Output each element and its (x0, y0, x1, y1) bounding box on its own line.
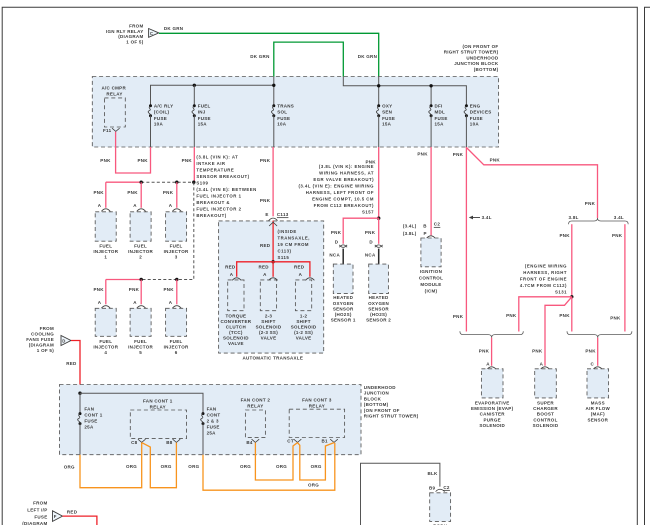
svg-text:RED: RED (294, 264, 305, 269)
svg-text:ORG: ORG (188, 464, 199, 469)
wire fuel inj fuse feed (193, 85, 195, 106)
svg-text:PNK: PNK (94, 190, 105, 195)
svg-text:CANISTER: CANISTER (480, 412, 506, 417)
heated oxygen sensor 1 (329, 240, 356, 323)
svg-text:CONTROL: CONTROL (533, 417, 557, 422)
svg-text:TORQUE: TORQUE (225, 314, 246, 319)
svg-text:ENG: ENG (470, 104, 481, 109)
wire pnk oxy sen fuse to S157 (378, 147, 380, 218)
svg-text:COOLING: COOLING (31, 331, 54, 336)
wire red S115 to 2-3 solenoid (272, 262, 274, 277)
wire pnk S157 to HO2S sensor 2 (378, 218, 380, 244)
svg-text:(BOTTOM): (BOTTOM) (474, 67, 499, 72)
fan cont 2 relay (241, 398, 271, 446)
wire pnk trans sol fuse to C113 (272, 147, 274, 216)
wire bus segment A inside junction block (151, 85, 274, 106)
mass air flow sensor (586, 362, 611, 423)
fuse TRANS SOL 10A (271, 104, 294, 148)
svg-text:(HO2S): (HO2S) (370, 312, 387, 317)
svg-text:2 & 3: 2 & 3 (207, 419, 219, 424)
svg-text:PNK: PNK (585, 201, 596, 206)
svg-text:A: A (98, 300, 102, 305)
svg-text:(MAF): (MAF) (591, 412, 605, 417)
svg-text:VALVE: VALVE (261, 336, 277, 341)
wire red cooling fans to fan box (71, 341, 80, 386)
svg-text:EMISSION (EVAP): EMISSION (EVAP) (471, 406, 514, 411)
svg-text:FUSE: FUSE (435, 116, 448, 121)
wire pnk eng devices down to brace (465, 147, 467, 332)
svg-text:PNK: PNK (479, 349, 490, 354)
svg-text:ORG: ORG (126, 464, 137, 469)
svg-text:FUSE: FUSE (198, 116, 211, 121)
svg-text:C113): C113) (278, 249, 292, 254)
svg-text:HEATED: HEATED (369, 295, 389, 300)
svg-text:SOLENOID: SOLENOID (223, 336, 249, 341)
svg-text:UNDERHOOD: UNDERHOOD (466, 55, 498, 60)
svg-text:INJECTOR: INJECTOR (128, 345, 153, 350)
svg-text:INJ: INJ (198, 110, 206, 115)
node S131 (570, 295, 573, 298)
svg-text:BREAKOUT): BREAKOUT) (196, 213, 226, 218)
splice S115 text (278, 229, 310, 260)
automatic transaxle box (219, 221, 324, 353)
svg-text:(COIL): (COIL) (154, 110, 170, 115)
svg-text:PNK: PNK (559, 313, 570, 318)
junction block location label (444, 44, 499, 72)
svg-text:4: 4 (104, 350, 107, 355)
svg-text:S115: S115 (278, 255, 290, 260)
svg-text:PNK: PNK (365, 230, 376, 235)
svg-text:B4: B4 (246, 440, 253, 445)
svg-text:3.8L: 3.8L (569, 215, 579, 220)
svg-text:S131: S131 (555, 289, 567, 294)
connector B9 C2 (429, 485, 450, 492)
svg-text:INJECTOR: INJECTOR (93, 345, 118, 350)
svg-text:A: A (133, 203, 137, 208)
svg-text:CONT 1: CONT 1 (84, 413, 102, 418)
1-2 shift solenoid valve (291, 272, 317, 341)
from IGN RLY RELAY source label (106, 23, 144, 44)
svg-text:PNK: PNK (610, 316, 621, 321)
svg-text:(3.8L (VIN K): ENGINE: (3.8L (VIN K): ENGINE (319, 164, 374, 169)
svg-text:SENSOR 1: SENSOR 1 (331, 318, 356, 323)
svg-text:FAN: FAN (84, 407, 94, 412)
svg-text:10A: 10A (470, 122, 480, 127)
A/C CMPR relay (102, 86, 127, 134)
wire dfi fuse feed (430, 86, 432, 106)
node dot trans sol fuse (272, 84, 275, 87)
svg-text:BLK: BLK (428, 471, 439, 476)
svg-text:A: A (169, 203, 173, 208)
svg-text:OXY: OXY (382, 104, 392, 109)
svg-text:(1-2 SS): (1-2 SS) (294, 330, 313, 335)
svg-text:MASS: MASS (591, 401, 605, 406)
svg-text:(3.8L): (3.8L) (403, 231, 417, 236)
fuel injector 6 (164, 300, 189, 355)
svg-text:FUEL: FUEL (170, 244, 183, 249)
svg-text:PNK: PNK (532, 349, 543, 354)
svg-text:CONVERTER: CONVERTER (221, 319, 252, 324)
svg-text:INJECTOR: INJECTOR (164, 345, 189, 350)
svg-text:SUPER: SUPER (537, 401, 554, 406)
fan cont 1 relay (130, 399, 186, 445)
splice row 2 (106, 278, 179, 281)
svg-text:FUEL INJECTOR 2: FUEL INJECTOR 2 (196, 206, 241, 211)
svg-text:FROM: FROM (129, 23, 143, 28)
wire org fan cont 1 fuse to C8 (80, 443, 142, 488)
fan box location label (364, 385, 419, 419)
svg-text:RELAY: RELAY (309, 403, 325, 408)
svg-text:4.7CM FROM C112): 4.7CM FROM C112) (520, 283, 567, 288)
svg-text:PNK: PNK (94, 287, 105, 292)
svg-text:SENSOR 2: SENSOR 2 (366, 318, 391, 323)
svg-text:LEFT I/P: LEFT I/P (27, 507, 47, 512)
svg-text:INJECTOR: INJECTOR (93, 249, 118, 254)
svg-text:15A: 15A (435, 122, 445, 127)
fuel injector 3 (164, 203, 189, 260)
svg-text:A: A (540, 362, 544, 367)
svg-text:RIGHT STRUT TOWER): RIGHT STRUT TOWER) (364, 414, 419, 419)
svg-text:(ON FRONT OF: (ON FRONT OF (364, 408, 400, 413)
svg-text:FUEL: FUEL (99, 339, 112, 344)
svg-text:ORG: ORG (240, 464, 251, 469)
svg-text:2: 2 (139, 255, 142, 260)
svg-text:SOLENOID: SOLENOID (256, 325, 282, 330)
svg-text:3: 3 (175, 255, 178, 260)
svg-text:PNK: PNK (506, 313, 517, 318)
svg-text:A: A (230, 272, 234, 277)
node dot oxy sen fuse (377, 84, 380, 87)
lower left brace merge (460, 331, 523, 337)
svg-text:10A: 10A (154, 122, 164, 127)
svg-text:RED: RED (66, 361, 77, 366)
svg-text:(ENGINE WIRING: (ENGINE WIRING (525, 263, 567, 268)
fuse ENG DEVICES 10A (464, 104, 491, 148)
svg-text:FAN CONT 1: FAN CONT 1 (143, 399, 173, 404)
svg-text:D: D (62, 339, 65, 344)
svg-text:SENSOR: SENSOR (368, 306, 389, 311)
wire pnk S131 down to lower right brace (571, 297, 573, 332)
svg-text:PNK: PNK (100, 158, 111, 163)
svg-text:S157: S157 (362, 210, 374, 215)
svg-text:FAN CONT 2: FAN CONT 2 (241, 398, 271, 403)
svg-text:VALVE: VALVE (228, 341, 244, 346)
fuse A/C RLY (COIL) 10A (148, 104, 173, 148)
wire pnk eng devices diagonal branch (466, 148, 597, 219)
page border right panel (645, 7, 650, 525)
wire pnk fuel inj fuse to S109 (193, 147, 195, 182)
svg-text:SOLENOID: SOLENOID (479, 423, 505, 428)
wire pnk to injector 1 (105, 182, 107, 208)
svg-text:C113: C113 (277, 212, 289, 217)
node S115 (271, 260, 274, 263)
svg-text:ORG: ORG (161, 464, 172, 469)
lower right brace merge (567, 331, 632, 337)
svg-text:INJECTOR: INJECTOR (164, 249, 189, 254)
svg-text:C2: C2 (434, 222, 441, 227)
svg-text:ORG: ORG (311, 464, 322, 469)
underhood junction block (top) (92, 77, 498, 148)
svg-text:AUTOMATIC TRANSAXLE: AUTOMATIC TRANSAXLE (242, 355, 303, 360)
wire org C8 to B8 (142, 443, 177, 488)
svg-text:A/C CMPR: A/C CMPR (102, 86, 127, 91)
svg-text:FROM: FROM (33, 501, 47, 506)
svg-text:HARNESS, RIGHT: HARNESS, RIGHT (523, 270, 567, 275)
svg-text:FUSE: FUSE (154, 116, 167, 121)
fuse FAN CONT 1 25A (78, 407, 103, 455)
svg-text:(TCC): (TCC) (229, 330, 243, 335)
svg-text:EVAPORATIVE: EVAPORATIVE (475, 401, 510, 406)
svg-text:B: B (423, 223, 427, 228)
svg-text:(DIAGRAM: (DIAGRAM (29, 343, 54, 348)
svg-text:P: P (424, 231, 427, 236)
fuel injector 1 (93, 203, 118, 260)
svg-text:PNK: PNK (127, 190, 138, 195)
fuse OXY SEN 15A (376, 104, 395, 148)
wire pnk to injector 3 (176, 182, 178, 208)
wire dashed S109 to row 2 splice (141, 182, 194, 279)
svg-text:HARNESS, LEFT FRONT OF: HARNESS, LEFT FRONT OF (306, 190, 374, 195)
wire org B4 to CT (255, 443, 297, 480)
svg-text:PNK: PNK (612, 233, 623, 238)
svg-text:A: A (133, 300, 137, 305)
svg-text:A/C RLY: A/C RLY (154, 104, 174, 109)
svg-text:DK GRN: DK GRN (358, 54, 377, 59)
node dot dfi mdl fuse (429, 84, 432, 87)
svg-text:OXYGEN: OXYGEN (368, 301, 389, 306)
svg-text:ORG: ORG (308, 482, 319, 487)
svg-text:FUSE: FUSE (277, 116, 290, 121)
svg-text:(DIAGRAM: (DIAGRAM (118, 34, 143, 39)
svg-text:SENSOR: SENSOR (587, 417, 608, 422)
svg-text:RED: RED (260, 243, 271, 248)
svg-text:VALVE: VALVE (296, 336, 312, 341)
svg-text:FROM C112 BREAKOUT): FROM C112 BREAKOUT) (314, 203, 374, 208)
svg-text:NCA: NCA (365, 253, 376, 258)
wire bus segment B inside junction block (343, 77, 466, 106)
svg-text:HEATED: HEATED (333, 295, 353, 300)
svg-text:SOL: SOL (277, 110, 287, 115)
2-3 shift solenoid valve (256, 272, 282, 341)
svg-text:SHIFT: SHIFT (296, 319, 310, 324)
svg-text:FUEL: FUEL (198, 104, 211, 109)
wire red left ip fuse (63, 516, 97, 525)
svg-text:TEMPERATURE: TEMPERATURE (196, 167, 234, 172)
wire red S115 distribution (237, 262, 310, 277)
svg-text:RED: RED (67, 509, 78, 514)
svg-text:C: C (150, 31, 153, 36)
svg-text:ORG: ORG (64, 464, 75, 469)
from left I/P fuse source label (22, 501, 47, 525)
svg-text:C2: C2 (443, 485, 450, 490)
svg-text:MODULE: MODULE (420, 282, 441, 287)
svg-text:(3.4L): (3.4L) (403, 223, 417, 228)
svg-text:FUEL: FUEL (170, 339, 183, 344)
svg-text:FUEL: FUEL (134, 339, 147, 344)
svg-text:IGNITION: IGNITION (420, 269, 442, 274)
arrow D from cooling fans fuse (61, 336, 71, 346)
svg-text:FROM: FROM (40, 326, 54, 331)
svg-text:D: D (335, 240, 339, 245)
svg-text:BLOCK: BLOCK (364, 396, 382, 401)
wire pnk 3.8L leg to S131 (571, 224, 573, 297)
svg-text:FUSE: FUSE (84, 419, 97, 424)
fuse FAN CONT 2 & 3 25A (201, 407, 221, 455)
svg-text:PNK: PNK (560, 233, 571, 238)
wire black to fan cont 1 fuse (79, 393, 81, 413)
svg-text:CONTROL: CONTROL (419, 275, 443, 280)
svg-text:25A: 25A (84, 424, 94, 429)
svg-text:(ICM): (ICM) (425, 288, 438, 293)
svg-text:PNK: PNK (453, 314, 464, 319)
svg-text:DK GRN: DK GRN (250, 54, 269, 59)
svg-text:D: D (369, 240, 373, 245)
svg-text:(2-3 SS): (2-3 SS) (259, 330, 278, 335)
svg-text:AIR FLOW: AIR FLOW (586, 406, 611, 411)
svg-text:1 OF 5): 1 OF 5) (126, 40, 143, 45)
svg-text:RELAY: RELAY (247, 403, 263, 408)
wire dk grn U branch (274, 42, 344, 76)
svg-text:NCA: NCA (329, 253, 340, 258)
fuel injector 5 (128, 300, 153, 355)
svg-text:FANS FUSE: FANS FUSE (26, 337, 54, 342)
svg-text:SEN: SEN (382, 110, 392, 115)
svg-text:PURGE: PURGE (483, 417, 500, 422)
svg-text:(BOTTOM): (BOTTOM) (364, 402, 389, 407)
fuel injector 2 (128, 203, 153, 260)
svg-text:CHARGER: CHARGER (533, 406, 558, 411)
svg-text:15A: 15A (198, 122, 208, 127)
svg-text:PNK: PNK (138, 158, 149, 163)
splice S131 text (520, 263, 567, 294)
svg-text:DK GRN: DK GRN (164, 26, 183, 31)
svg-text:FRONT OF ENGINE: FRONT OF ENGINE (520, 276, 567, 281)
svg-text:25A: 25A (207, 430, 217, 435)
svg-text:PNK: PNK (417, 152, 428, 157)
wire pnk to injector 2 (140, 182, 142, 208)
svg-text:A: A (169, 300, 173, 305)
svg-text:1: 1 (104, 255, 107, 260)
wire pnk to injector 4 (105, 280, 107, 305)
underhood junction block (bottom) fan box (60, 385, 362, 455)
svg-text:A: A (98, 203, 102, 208)
svg-text:PNK: PNK (163, 190, 174, 195)
svg-text:(ON FRONT OF: (ON FRONT OF (463, 44, 499, 49)
svg-text:C: C (591, 362, 595, 367)
fuel injector 4 (93, 300, 118, 355)
svg-text:B8: B8 (166, 440, 173, 445)
svg-text:B1: B1 (322, 439, 329, 444)
wire dk grn horizontal from arrow (159, 33, 379, 76)
svg-text:E: E (265, 212, 268, 217)
svg-text:PNK: PNK (182, 158, 193, 163)
svg-text:ENGINE COMPT, 10.5 CM: ENGINE COMPT, 10.5 CM (312, 197, 374, 202)
svg-text:EGR VALVE BREAKOUT): EGR VALVE BREAKOUT) (313, 177, 374, 182)
svg-text:B9: B9 (429, 486, 436, 491)
connector C113 pin E (265, 212, 288, 220)
svg-text:CT: CT (287, 439, 294, 444)
svg-text:JUNCTION: JUNCTION (364, 391, 389, 396)
svg-text:RELAY: RELAY (106, 92, 122, 97)
svg-text:RED: RED (259, 264, 270, 269)
svg-text:(3.8L (VIN K): AT: (3.8L (VIN K): AT (196, 154, 238, 159)
svg-text:3.4L: 3.4L (482, 215, 492, 220)
annotation arrow 3.4L (469, 215, 492, 220)
svg-text:FUEL: FUEL (99, 244, 112, 249)
upper brace 3.8L/3.4L split (569, 218, 629, 224)
node dot red feed (78, 392, 81, 395)
svg-text:OXYGEN: OXYGEN (333, 301, 354, 306)
svg-text:PNK: PNK (260, 158, 271, 163)
wire pnk dfi fuse to ICM (430, 147, 432, 235)
svg-text:WIRING HARNESS, AT: WIRING HARNESS, AT (319, 171, 374, 176)
svg-text:1 OF 5): 1 OF 5) (37, 348, 54, 353)
svg-text:FUEL INJECTOR 1: FUEL INJECTOR 1 (196, 193, 241, 198)
svg-text:UNDERHOOD: UNDERHOOD (364, 385, 396, 390)
svg-text:5: 5 (139, 350, 142, 355)
svg-text:2-3: 2-3 (265, 314, 273, 319)
svg-text:JUNCTION BLOCK: JUNCTION BLOCK (454, 61, 499, 66)
svg-text:F: F (54, 514, 57, 519)
svg-text:RELAY: RELAY (150, 405, 166, 410)
from cooling fans fuse source label (26, 326, 54, 353)
fuse FUEL INJ 15A (192, 104, 211, 148)
heated oxygen sensor 2 (365, 240, 391, 323)
svg-text:FUSE: FUSE (470, 116, 483, 121)
svg-text:(HO2S): (HO2S) (335, 312, 352, 317)
svg-text:SOLENOID: SOLENOID (291, 325, 317, 330)
svg-text:TRANSAXLE,: TRANSAXLE, (278, 236, 310, 241)
arrow C from ign rly relay (149, 29, 159, 38)
svg-text:BOOST: BOOST (537, 412, 554, 417)
fan cont 3 relay (287, 398, 344, 444)
svg-text:19 CM FROM: 19 CM FROM (278, 242, 310, 247)
bottom component box (cut off) (430, 493, 451, 522)
node dot fuel inj fuse (193, 84, 196, 87)
svg-text:(INSIDE: (INSIDE (278, 229, 297, 234)
wire green drop oxy sen inside block (378, 77, 380, 106)
svg-text:RIGHT STRUT TOWER): RIGHT STRUT TOWER) (444, 50, 499, 55)
svg-text:DEVICES: DEVICES (470, 110, 492, 115)
wire pnk to EVAP solenoid (491, 338, 493, 366)
wire pnk a/c relay coil loop (116, 132, 151, 173)
fuse DFI MDL 15A (429, 104, 448, 148)
wire org fan cont 2&3 fuse to B1 (203, 443, 335, 490)
svg-text:FUSE: FUSE (34, 514, 47, 519)
svg-text:10A: 10A (277, 122, 287, 127)
svg-text:(3.4L (VIN E): BETWEEN: (3.4L (VIN E): BETWEEN (196, 187, 256, 192)
wire black bus inside fan box (80, 393, 203, 413)
svg-text:PNK: PNK (331, 230, 342, 235)
wire blk bottom circuit (361, 463, 440, 525)
svg-text:TRANS: TRANS (277, 104, 294, 109)
svg-text:SOLENOID: SOLENOID (533, 423, 559, 428)
wire org CT to B1 (298, 443, 335, 480)
svg-text:PNK: PNK (585, 349, 596, 354)
svg-text:SHIFT: SHIFT (261, 319, 275, 324)
svg-text:CLUTCH: CLUTCH (226, 325, 246, 330)
splice S109 text block (196, 154, 256, 218)
svg-text:ORG: ORG (276, 464, 287, 469)
splice S109 row 1 (106, 181, 196, 184)
supercharger boost control solenoid (533, 362, 559, 428)
wire pnk S131 left branch (519, 297, 572, 332)
svg-text:1-2: 1-2 (300, 314, 308, 319)
svg-text:SENSOR BREAKOUT): SENSOR BREAKOUT) (196, 174, 249, 179)
wire red C113 to S115 (272, 221, 274, 262)
wire pnk 3.4L leg to lower brace (624, 224, 626, 331)
svg-text:A: A (486, 362, 490, 367)
